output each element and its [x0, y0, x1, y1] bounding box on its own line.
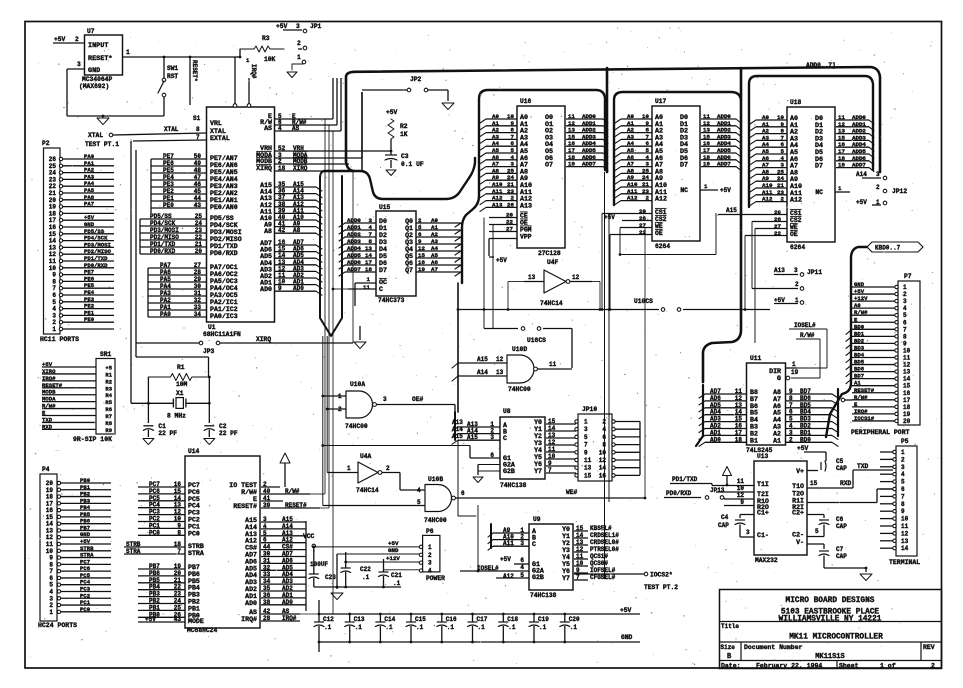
- svg-text:Q1: Q1: [405, 225, 413, 232]
- svg-text:C23: C23: [325, 574, 336, 581]
- svg-text:9: 9: [903, 340, 907, 347]
- svg-text:BD2: BD2: [854, 337, 865, 344]
- svg-text:REV: REV: [923, 644, 935, 651]
- svg-text:PA4/OC4: PA4/OC4: [210, 285, 238, 292]
- svg-text:STRB: STRB: [188, 543, 204, 550]
- svg-text:C: C: [379, 286, 383, 293]
- svg-text:GND: GND: [621, 634, 633, 641]
- svg-text:13: 13: [584, 465, 592, 472]
- svg-text:PA2/IC1: PA2/IC1: [210, 299, 238, 306]
- svg-text:74HC00: 74HC00: [424, 517, 447, 524]
- svg-text:100UF: 100UF: [310, 561, 328, 568]
- svg-text:4: 4: [903, 305, 907, 312]
- svg-text:PTRSEL0#: PTRSEL0#: [590, 546, 619, 553]
- svg-text:O7: O7: [545, 162, 553, 170]
- svg-text:C1-: C1-: [757, 532, 769, 539]
- svg-text:.1: .1: [508, 624, 516, 631]
- svg-text:D5: D5: [379, 253, 387, 260]
- svg-text:9: 9: [584, 449, 588, 456]
- svg-text:2: 2: [901, 456, 905, 463]
- svg-text:10: 10: [599, 449, 607, 456]
- svg-text:RESET*: RESET*: [191, 60, 198, 82]
- svg-text:74HC14: 74HC14: [356, 487, 379, 494]
- svg-text:PA3/OC5: PA3/OC5: [210, 292, 238, 299]
- svg-text:+5V: +5V: [500, 556, 511, 563]
- svg-text:11: 11: [901, 523, 909, 530]
- svg-text:15: 15: [810, 480, 818, 487]
- svg-text:C5: C5: [836, 458, 844, 465]
- svg-text:TEST PT.1: TEST PT.1: [85, 141, 119, 148]
- svg-text:13: 13: [903, 369, 911, 376]
- svg-text:GND: GND: [388, 547, 399, 554]
- svg-text:A14: A14: [856, 171, 867, 178]
- svg-text:BD7: BD7: [854, 373, 864, 380]
- svg-text:A14: A14: [477, 369, 488, 376]
- svg-text:Q4: Q4: [405, 246, 413, 253]
- svg-text:C1: C1: [158, 423, 166, 430]
- svg-text:2: 2: [386, 465, 390, 472]
- svg-text:D7: D7: [379, 267, 387, 274]
- svg-text:1: 1: [901, 449, 905, 456]
- svg-text:QCS1#: QCS1#: [590, 553, 608, 560]
- svg-text:HC24 PORTS: HC24 PORTS: [38, 622, 77, 629]
- svg-text:JP3: JP3: [203, 348, 215, 355]
- svg-text:U7: U7: [87, 28, 95, 35]
- svg-text:(MAX692): (MAX692): [79, 83, 109, 90]
- svg-text:STRA: STRA: [188, 550, 204, 557]
- svg-text:C: C: [532, 541, 536, 548]
- svg-text:1: 1: [792, 361, 796, 368]
- svg-text:4: 4: [428, 568, 432, 575]
- svg-text:JP11: JP11: [807, 269, 822, 276]
- svg-text:R/W#: R/W#: [854, 309, 868, 316]
- svg-text:GND: GND: [88, 67, 100, 75]
- svg-text:8: 8: [903, 333, 907, 340]
- svg-text:Y5: Y5: [534, 454, 542, 461]
- svg-text:3: 3: [901, 464, 905, 471]
- svg-text:RXD: RXD: [42, 423, 53, 430]
- svg-text:8 MHz: 8 MHz: [167, 413, 186, 420]
- svg-text:C: C: [503, 435, 507, 442]
- svg-text:+5V: +5V: [797, 445, 809, 452]
- svg-text:6264: 6264: [790, 244, 805, 251]
- svg-text:6: 6: [602, 434, 606, 441]
- svg-text:D2: D2: [379, 232, 387, 239]
- svg-text:T2O: T2O: [792, 491, 804, 498]
- svg-text:IOCS2*: IOCS2*: [650, 572, 673, 579]
- svg-text:X1: X1: [176, 390, 184, 397]
- svg-text:IOCS1#: IOCS1#: [854, 415, 875, 422]
- svg-text:MC68HC24: MC68HC24: [187, 627, 217, 634]
- svg-text:PE6/AN6: PE6/AN6: [210, 162, 238, 169]
- svg-text:C18: C18: [507, 616, 518, 623]
- svg-text:U4F: U4F: [547, 259, 559, 266]
- svg-text:A13: A13: [774, 267, 785, 274]
- svg-text:PD1/TXD: PD1/TXD: [672, 476, 698, 483]
- svg-text:27C128: 27C128: [538, 250, 561, 257]
- svg-text:Y5: Y5: [562, 561, 570, 568]
- svg-text:12: 12: [572, 274, 580, 281]
- svg-text:T1I: T1I: [757, 481, 769, 488]
- svg-text:MODE: MODE: [188, 618, 204, 625]
- svg-text:+5V: +5V: [54, 36, 66, 43]
- svg-text:11: 11: [737, 478, 745, 485]
- svg-text:74HC00: 74HC00: [345, 423, 368, 430]
- svg-text:Y4: Y4: [562, 554, 570, 561]
- svg-text:1: 1: [297, 54, 301, 61]
- svg-text:3: 3: [584, 426, 588, 433]
- svg-text:C2-: C2-: [792, 532, 804, 539]
- svg-text:A8: A8: [264, 228, 272, 235]
- svg-text:15: 15: [903, 383, 911, 390]
- svg-text:CAP: CAP: [836, 465, 847, 472]
- svg-text:U10D: U10D: [512, 346, 527, 353]
- svg-text:9R-SIP 10K: 9R-SIP 10K: [73, 436, 112, 443]
- svg-text:V-: V-: [796, 539, 804, 546]
- svg-text:+5V: +5V: [854, 288, 865, 295]
- svg-text:PERIPHERAL PORT: PERIPHERAL PORT: [851, 429, 910, 436]
- svg-text:D0: D0: [379, 218, 387, 225]
- svg-text:+5V: +5V: [388, 540, 399, 547]
- svg-text:11: 11: [903, 355, 911, 362]
- svg-text:Y2: Y2: [534, 433, 542, 440]
- svg-text:U10A: U10A: [350, 381, 365, 388]
- svg-text:PC0: PC0: [188, 530, 200, 537]
- svg-text:C22: C22: [360, 566, 371, 573]
- svg-text:IOSEL#: IOSEL#: [794, 322, 816, 329]
- svg-text:5: 5: [584, 434, 588, 441]
- svg-text:1: 1: [903, 284, 907, 291]
- svg-text:Q0: Q0: [405, 218, 413, 225]
- svg-text:RESET#: RESET#: [233, 503, 257, 510]
- svg-text:CRDSEL0#: CRDSEL0#: [590, 539, 619, 546]
- svg-text:NC: NC: [815, 189, 823, 196]
- svg-text:Y7: Y7: [562, 575, 570, 582]
- svg-text:WE#: WE#: [566, 489, 578, 496]
- svg-text:S1: S1: [193, 115, 201, 122]
- svg-text:PA7: PA7: [84, 201, 94, 208]
- svg-text:E: E: [253, 496, 257, 503]
- svg-text:74HC14: 74HC14: [540, 300, 563, 307]
- svg-text:XTAL: XTAL: [210, 128, 226, 135]
- svg-text:T2I: T2I: [757, 491, 769, 498]
- svg-text:P5: P5: [901, 438, 909, 445]
- svg-text:14: 14: [903, 376, 911, 383]
- svg-text:0.1 UF: 0.1 UF: [401, 161, 424, 168]
- svg-text:15: 15: [584, 472, 592, 479]
- svg-text:BD4: BD4: [854, 352, 865, 359]
- svg-text:SR1: SR1: [100, 351, 112, 358]
- svg-text:16: 16: [599, 472, 607, 479]
- svg-text:2: 2: [931, 663, 935, 670]
- svg-text:Y1: Y1: [562, 533, 570, 540]
- svg-text:U4A: U4A: [360, 453, 372, 460]
- svg-text:PE7/AN7: PE7/AN7: [210, 155, 238, 162]
- svg-text:R1: R1: [177, 364, 185, 371]
- svg-text:C2+: C2+: [792, 510, 804, 517]
- svg-text:C21: C21: [391, 572, 402, 579]
- svg-text:PE1/AN1: PE1/AN1: [210, 197, 238, 204]
- svg-text:XIRQ: XIRQ: [256, 165, 272, 172]
- svg-text:TERMINAL: TERMINAL: [889, 559, 920, 566]
- svg-text:C12: C12: [323, 616, 334, 623]
- svg-text:C14: C14: [384, 616, 395, 623]
- svg-text:6: 6: [461, 490, 465, 497]
- svg-text:MC34064P: MC34064P: [82, 76, 112, 83]
- svg-text:PE0/AN0: PE0/AN0: [210, 204, 238, 211]
- svg-text:2: 2: [75, 36, 79, 43]
- svg-text:1: 1: [838, 185, 842, 192]
- svg-text:RST: RST: [167, 73, 178, 80]
- svg-text:R/W#: R/W#: [854, 394, 868, 401]
- svg-text:1 of: 1 of: [880, 663, 896, 670]
- svg-text:R/W#: R/W#: [241, 489, 257, 496]
- svg-text:BD5: BD5: [854, 359, 865, 366]
- svg-text:P6: P6: [426, 528, 434, 535]
- svg-text:C20: C20: [569, 616, 580, 623]
- svg-text:68HC11A1FN: 68HC11A1FN: [203, 331, 241, 338]
- svg-text:PA1/IC2: PA1/IC2: [210, 306, 238, 313]
- svg-text:+5V: +5V: [604, 214, 615, 221]
- svg-text:1: 1: [52, 326, 56, 333]
- svg-text:Y4: Y4: [534, 447, 542, 454]
- svg-text:PD3/MOSI: PD3/MOSI: [210, 229, 242, 236]
- svg-text:2: 2: [428, 552, 432, 559]
- svg-text:Date:: Date:: [721, 663, 741, 670]
- svg-text:+5V: +5V: [620, 607, 632, 614]
- svg-text:Y3: Y3: [534, 440, 542, 447]
- svg-text:GND: GND: [854, 281, 865, 288]
- svg-text:Sheet: Sheet: [839, 663, 859, 670]
- svg-text:13: 13: [496, 369, 504, 376]
- svg-text:Y0: Y0: [562, 526, 570, 533]
- svg-text:1K: 1K: [400, 131, 408, 138]
- svg-text:U17: U17: [655, 98, 667, 105]
- svg-text:22 PF: 22 PF: [219, 430, 238, 437]
- svg-text:7: 7: [901, 493, 905, 500]
- svg-text:74HC373: 74HC373: [378, 297, 405, 304]
- svg-text:17: 17: [903, 397, 911, 404]
- svg-text:74HC138: 74HC138: [530, 592, 557, 599]
- svg-text:MAX232: MAX232: [755, 557, 778, 564]
- svg-text:3: 3: [876, 171, 880, 178]
- svg-text:13: 13: [528, 274, 536, 281]
- svg-text:Y7: Y7: [534, 468, 542, 475]
- svg-text:2: 2: [297, 40, 301, 47]
- svg-text:U10B: U10B: [428, 476, 443, 483]
- svg-text:9: 9: [901, 508, 905, 515]
- svg-text:10: 10: [901, 516, 909, 523]
- svg-text:Q2: Q2: [405, 232, 413, 239]
- svg-text:11: 11: [363, 284, 370, 291]
- svg-text:WILLIAMSVILLE NY 14221: WILLIAMSVILLE NY 14221: [779, 616, 882, 624]
- svg-text:Y6: Y6: [534, 461, 542, 468]
- svg-text:U9: U9: [533, 516, 541, 523]
- svg-text:8: 8: [602, 442, 606, 449]
- svg-text:C2: C2: [219, 423, 227, 430]
- svg-text:JP2: JP2: [410, 76, 422, 83]
- svg-text:A15: A15: [477, 356, 488, 363]
- svg-text:+5V: +5V: [856, 199, 867, 206]
- svg-text:AS: AS: [249, 609, 257, 616]
- svg-text:Size: Size: [721, 644, 736, 651]
- svg-text:BD6: BD6: [854, 366, 865, 373]
- svg-text:6: 6: [520, 557, 524, 564]
- svg-text:.1: .1: [362, 574, 370, 581]
- svg-text:1: 1: [584, 419, 588, 426]
- svg-text:74HC138: 74HC138: [500, 482, 527, 489]
- svg-text:.1: .1: [570, 624, 578, 631]
- svg-text:C6: C6: [836, 516, 844, 523]
- svg-text:Document Number: Document Number: [744, 644, 803, 651]
- svg-text:10: 10: [903, 347, 911, 354]
- svg-text:.1: .1: [447, 624, 455, 631]
- svg-text:DIR: DIR: [769, 368, 781, 375]
- svg-text:AD0: AD0: [245, 600, 257, 607]
- svg-text:Q5: Q5: [405, 253, 413, 260]
- svg-text:C17: C17: [477, 616, 488, 623]
- svg-text:U1: U1: [208, 324, 216, 331]
- svg-text:1: 1: [347, 465, 351, 472]
- svg-text:20: 20: [903, 418, 911, 425]
- svg-text:RXD: RXD: [840, 480, 852, 487]
- svg-text:U14: U14: [188, 448, 200, 455]
- svg-text:+5V: +5V: [720, 187, 731, 194]
- svg-text:U8: U8: [503, 408, 511, 415]
- svg-text:KBSEL#: KBSEL#: [590, 525, 612, 532]
- svg-text:R9: R9: [105, 427, 112, 434]
- svg-text:RESET#: RESET#: [854, 387, 875, 394]
- svg-text:7: 7: [584, 442, 588, 449]
- svg-text:14: 14: [901, 545, 909, 552]
- svg-text:VRL: VRL: [210, 120, 222, 127]
- svg-text:10M: 10M: [176, 381, 188, 388]
- svg-text:A12: A12: [655, 196, 667, 204]
- svg-text:D4: D4: [379, 246, 387, 253]
- svg-text:PD0/RXD: PD0/RXD: [666, 490, 692, 497]
- svg-text:R/W#: R/W#: [800, 332, 815, 339]
- svg-text:G: G: [777, 375, 781, 382]
- svg-text:V+: V+: [796, 468, 804, 475]
- svg-text:PD4/SCK: PD4/SCK: [210, 222, 238, 229]
- svg-text:BD3: BD3: [854, 344, 865, 351]
- svg-text:HC11 PORTS: HC11 PORTS: [40, 336, 79, 343]
- svg-text:JP13: JP13: [710, 487, 725, 494]
- svg-text:C1+: C1+: [757, 510, 769, 517]
- svg-text:AS: AS: [264, 125, 272, 132]
- svg-text:OE: OE: [790, 231, 798, 238]
- svg-text:12: 12: [496, 356, 504, 363]
- svg-text:D3: D3: [379, 239, 387, 246]
- svg-text:VPP: VPP: [520, 234, 532, 241]
- svg-text:CAP: CAP: [718, 522, 729, 529]
- svg-text:10: 10: [737, 485, 745, 492]
- svg-text:19: 19: [791, 369, 799, 376]
- svg-text:ADD0..7]: ADD0..7]: [806, 62, 836, 69]
- svg-text:3: 3: [746, 529, 750, 536]
- svg-text:U11: U11: [750, 355, 762, 362]
- svg-text:Title: Title: [721, 623, 739, 630]
- svg-text:7: 7: [196, 134, 200, 141]
- svg-text:PC0: PC0: [80, 606, 91, 613]
- svg-text:.1: .1: [324, 624, 332, 631]
- svg-text:February 22, 1994: February 22, 1994: [756, 663, 822, 670]
- svg-text:Y3: Y3: [562, 547, 570, 554]
- svg-text:13: 13: [901, 538, 909, 545]
- svg-text:INPUT: INPUT: [88, 42, 108, 50]
- svg-text:CAP: CAP: [836, 553, 847, 560]
- svg-text:11: 11: [584, 457, 592, 464]
- svg-text:3: 3: [77, 61, 81, 68]
- svg-text:IRQ#: IRQ#: [854, 408, 868, 415]
- svg-text:C3: C3: [401, 153, 409, 160]
- svg-text:16: 16: [903, 390, 911, 397]
- svg-text:A1: A1: [773, 437, 781, 444]
- svg-text:PD1/TXD: PD1/TXD: [210, 243, 238, 250]
- svg-text:BD1: BD1: [854, 330, 865, 337]
- svg-text:U13: U13: [757, 453, 769, 460]
- svg-text:OC: OC: [379, 279, 387, 286]
- svg-text:3: 3: [428, 560, 432, 567]
- svg-text:2: 2: [602, 419, 606, 426]
- svg-text:Y2: Y2: [562, 540, 570, 547]
- svg-text:5: 5: [815, 528, 819, 535]
- svg-text:U16CS: U16CS: [527, 337, 546, 344]
- svg-text:IO TEST: IO TEST: [229, 482, 257, 489]
- svg-text:1: 1: [126, 49, 130, 56]
- svg-text:3: 3: [296, 23, 300, 30]
- svg-text:XIRQ: XIRQ: [256, 336, 271, 343]
- svg-text:22 PF: 22 PF: [158, 430, 177, 437]
- svg-text:XTAL: XTAL: [164, 126, 179, 133]
- svg-text:JP10: JP10: [582, 406, 597, 413]
- svg-text:AD0: AD0: [260, 286, 272, 293]
- svg-text:KBD0..7: KBD0..7: [875, 245, 901, 252]
- svg-text:Q7: Q7: [405, 267, 413, 274]
- svg-text:6: 6: [903, 319, 907, 326]
- svg-text:U16: U16: [520, 98, 532, 105]
- svg-text:CAP: CAP: [836, 523, 847, 530]
- svg-text:D7: D7: [680, 162, 688, 170]
- svg-text:.1: .1: [385, 624, 393, 631]
- svg-text:EXTAL: EXTAL: [210, 135, 230, 142]
- svg-text:IOFSEL#: IOFSEL#: [590, 567, 616, 574]
- svg-text:3: 3: [794, 267, 798, 274]
- svg-text:A15: A15: [726, 207, 737, 214]
- svg-text:2: 2: [876, 184, 880, 191]
- svg-text:PE2/AN2: PE2/AN2: [210, 190, 238, 197]
- svg-text:C7: C7: [836, 546, 844, 553]
- svg-text:19: 19: [903, 411, 911, 418]
- svg-text:.1: .1: [355, 624, 363, 631]
- svg-text:CFGSEL#: CFGSEL#: [590, 574, 616, 581]
- svg-text:10K: 10K: [264, 56, 276, 63]
- svg-text:6: 6: [901, 486, 905, 493]
- svg-text:U15: U15: [379, 204, 391, 211]
- svg-text:JP12: JP12: [892, 188, 907, 195]
- svg-text:PGM: PGM: [520, 227, 532, 234]
- svg-text:C4: C4: [721, 514, 729, 521]
- svg-text:PA6/OC2: PA6/OC2: [210, 271, 238, 278]
- svg-text:2: 2: [795, 281, 799, 288]
- svg-text:18: 18: [903, 404, 911, 411]
- svg-text:A0: A0: [854, 302, 861, 309]
- svg-text:OE: OE: [655, 230, 663, 237]
- svg-text:A12: A12: [503, 573, 514, 580]
- svg-text:RESET*: RESET*: [88, 55, 112, 63]
- svg-text:D7: D7: [815, 163, 823, 171]
- svg-text:5: 5: [901, 479, 905, 486]
